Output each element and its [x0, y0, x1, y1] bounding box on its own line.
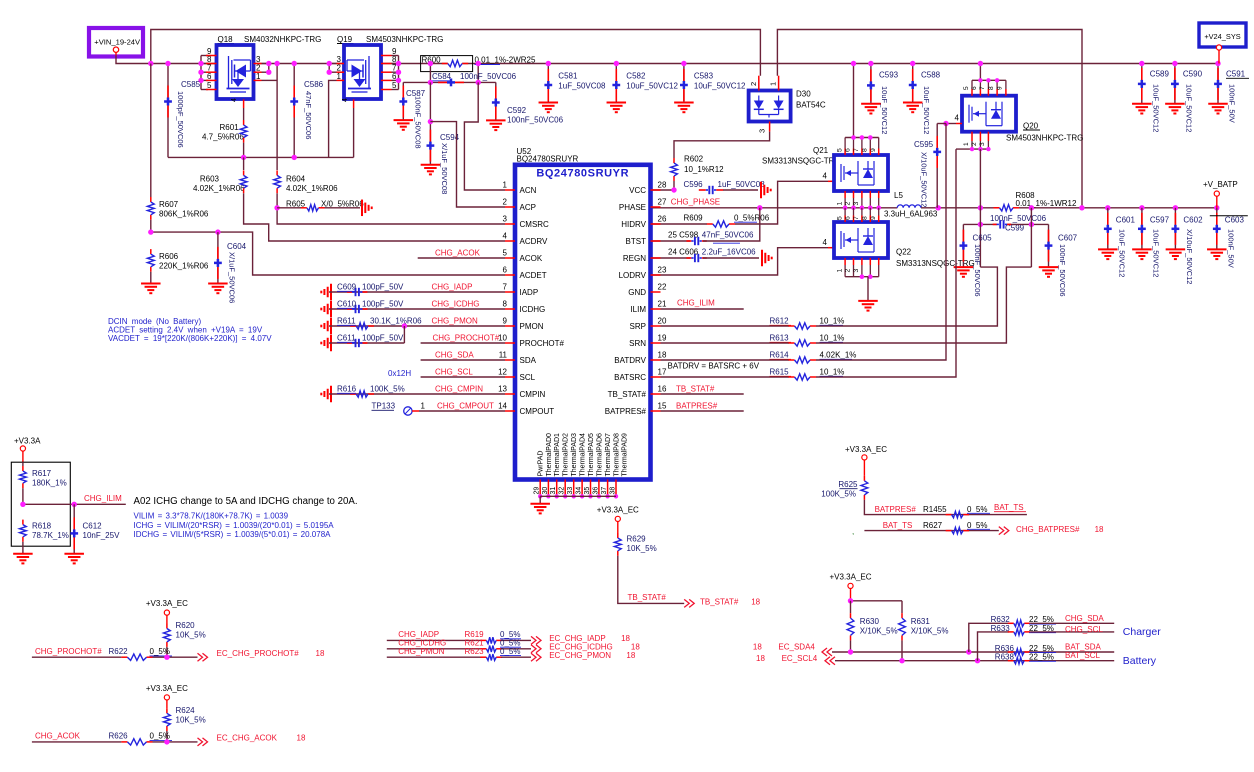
- svg-text:ThermalPAD3: ThermalPAD3: [571, 433, 578, 477]
- Q20 gate pin 4: [946, 123, 956, 125]
- wire Q19 pins 3-2 tie: [328, 64, 330, 73]
- svg-text:C597: C597: [1150, 216, 1170, 225]
- svg-text:ACP: ACP: [520, 203, 536, 212]
- svg-text:36: 36: [592, 487, 599, 495]
- svg-text:R606: R606: [159, 252, 179, 261]
- svg-text:ICHG = VILIM/(20*RSR) = 1.: ICHG = VILIM/(20*RSR) = 1.0039/(20*0.01)…: [134, 521, 335, 530]
- svg-text:CHG_ILIM: CHG_ILIM: [84, 494, 122, 503]
- svg-text:D30: D30: [796, 90, 811, 99]
- U52 pad pin 31: [556, 480, 558, 497]
- svg-text:CHG_PHASE: CHG_PHASE: [671, 198, 720, 207]
- svg-text:+V3.3A_EC: +V3.3A_EC: [829, 572, 871, 581]
- svg-text:100nF_50VC08: 100nF_50VC08: [414, 96, 423, 149]
- connector EC_SDA4: [822, 648, 832, 656]
- svg-text:CHG_ACOK: CHG_ACOK: [35, 732, 81, 741]
- svg-text:Q21: Q21: [813, 146, 829, 155]
- svg-text:Q18: Q18: [218, 35, 234, 44]
- Q19 left pins: [337, 63, 345, 65]
- svg-text:0_5%: 0_5%: [967, 521, 987, 530]
- svg-text:BQ24780SRUYR: BQ24780SRUYR: [517, 154, 579, 163]
- wire pad bus: [540, 495, 616, 497]
- power flag +VIN_19-24V: [89, 28, 143, 57]
- svg-text:PwrPAD: PwrPAD: [538, 451, 545, 477]
- svg-text:SDA: SDA: [520, 356, 537, 365]
- svg-text:31: 31: [550, 487, 557, 495]
- svg-text:CHG_SCL: CHG_SCL: [1065, 625, 1103, 634]
- U52 pin 13 CMPIN: [505, 393, 515, 395]
- svg-text:18: 18: [316, 649, 325, 658]
- U52 pad pin 33: [573, 480, 575, 497]
- svg-text:TB_STAT#: TB_STAT#: [608, 390, 647, 399]
- U52 pin 26 HIDRV: [651, 223, 661, 225]
- svg-text:CHG_CMPIN: CHG_CMPIN: [435, 385, 483, 394]
- svg-text:ACDRV: ACDRV: [520, 237, 549, 246]
- wire Q20 source down: [979, 149, 981, 208]
- svg-text:10uF_50VC12: 10uF_50VC12: [1117, 229, 1126, 277]
- ground R618: [13, 553, 33, 555]
- svg-text:100nF_50VC06: 100nF_50VC06: [973, 244, 982, 297]
- svg-text:10K_5%: 10K_5%: [176, 715, 206, 724]
- wire Q22 source to ground: [845, 276, 879, 278]
- svg-text:CHG_SDA: CHG_SDA: [1065, 614, 1104, 623]
- svg-text:220K_1%R06: 220K_1%R06: [159, 262, 209, 271]
- svg-text:C609: C609: [337, 283, 357, 292]
- svg-text:2.2uF_16VC06: 2.2uF_16VC06: [702, 248, 756, 257]
- svg-text:PHASE: PHASE: [619, 203, 646, 212]
- svg-text:22: 22: [658, 283, 667, 292]
- wire LODRV to Q22 gate: [652, 248, 828, 275]
- ground Q22: [858, 300, 878, 302]
- wire BATPRES#: [661, 410, 744, 412]
- capacitor C592 100nF_50VC06: [495, 82, 497, 120]
- junction +VIN entry: [148, 61, 153, 66]
- wire SDA bus: [832, 651, 1114, 653]
- svg-text:C610: C610: [337, 300, 357, 309]
- U52 pin 19 SRN: [651, 342, 661, 344]
- svg-text:7: 7: [979, 86, 986, 90]
- U52 pin 15 BATPRES#: [651, 410, 661, 412]
- svg-text:,: ,: [852, 527, 854, 536]
- svg-text:1: 1: [256, 72, 261, 81]
- svg-text:ThermalPAD5: ThermalPAD5: [588, 433, 595, 477]
- svg-text:10K_5%: 10K_5%: [176, 631, 206, 640]
- svg-text:4: 4: [955, 114, 960, 123]
- svg-text:EC_SCL4: EC_SCL4: [782, 654, 818, 663]
- svg-text:GND: GND: [628, 288, 646, 297]
- svg-text:4.02K_1%: 4.02K_1%: [820, 351, 857, 360]
- U52 pin 9 PMON: [505, 325, 515, 327]
- U52 pin 24 REGN: [651, 257, 661, 259]
- svg-text:X/1uF_50VC08: X/1uF_50VC08: [440, 143, 449, 194]
- svg-text:C612: C612: [83, 522, 103, 531]
- svg-text:10uF_50VC12: 10uF_50VC12: [1184, 84, 1193, 132]
- svg-text:1: 1: [503, 181, 508, 190]
- svg-text:X/10K_5%: X/10K_5%: [911, 627, 949, 636]
- connector EC_CHG_PMON: [531, 653, 541, 661]
- svg-text:1: 1: [836, 202, 843, 206]
- svg-text:1uF_50VC08: 1uF_50VC08: [718, 180, 766, 189]
- svg-text:+V3.3A_EC: +V3.3A_EC: [146, 684, 188, 693]
- svg-text:R622: R622: [109, 647, 129, 656]
- svg-text:HIDRV: HIDRV: [621, 220, 646, 229]
- svg-text:3: 3: [979, 142, 986, 146]
- svg-text:R1455: R1455: [923, 505, 947, 514]
- wire SRN: [816, 267, 1031, 343]
- svg-text:ThermalPAD2: ThermalPAD2: [563, 433, 570, 477]
- svg-text:C603: C603: [1225, 216, 1245, 225]
- U52 pin 25 BTST: [651, 240, 661, 242]
- svg-text:0_5%: 0_5%: [500, 647, 520, 656]
- wire Q18 pin1 to R604: [262, 79, 278, 81]
- svg-text:100nF_50VC06: 100nF_50VC06: [460, 72, 517, 81]
- svg-text:C585: C585: [181, 80, 201, 89]
- svg-text:CHG_PMON: CHG_PMON: [398, 647, 444, 656]
- svg-text:TB_STAT#: TB_STAT#: [700, 598, 739, 607]
- svg-text:30: 30: [542, 487, 549, 495]
- svg-text:R626: R626: [109, 732, 129, 741]
- svg-text:R612: R612: [770, 317, 790, 326]
- svg-text:100pF_50V: 100pF_50V: [362, 283, 404, 292]
- ground R605: [361, 200, 363, 217]
- svg-text:1: 1: [337, 72, 342, 81]
- svg-text:X/10uF_50VC12: X/10uF_50VC12: [1185, 229, 1194, 284]
- svg-text:10K_5%: 10K_5%: [627, 544, 657, 553]
- svg-text:BATPRES#: BATPRES#: [676, 402, 718, 411]
- svg-text:CHG_SDA: CHG_SDA: [435, 351, 474, 360]
- U52 pad pin 32: [564, 480, 566, 497]
- wire D30 pin1 riser to system: [777, 30, 1082, 208]
- svg-text:17: 17: [658, 368, 667, 377]
- wire HIDRV to Q21 gate: [735, 181, 828, 224]
- svg-text:2: 2: [749, 82, 758, 86]
- svg-text:+V_BATP: +V_BATP: [1203, 180, 1238, 189]
- resistor R600 0.01_1%-2WR25: [421, 56, 473, 72]
- svg-text:C586: C586: [304, 80, 324, 89]
- svg-text:0_5%R06: 0_5%R06: [734, 213, 770, 222]
- svg-text:3: 3: [853, 202, 860, 206]
- svg-text:L5: L5: [894, 191, 903, 200]
- svg-text:4.02K_1%R06: 4.02K_1%R06: [193, 184, 245, 193]
- svg-text:R616: R616: [337, 385, 357, 394]
- svg-text:9: 9: [997, 86, 1004, 90]
- svg-text:8: 8: [503, 300, 508, 309]
- ground C582: [607, 102, 627, 104]
- U52 pin 20 SRP: [651, 325, 661, 327]
- svg-text:4: 4: [342, 98, 349, 102]
- svg-text:X/10uF_50VC12: X/10uF_50VC12: [920, 152, 929, 207]
- svg-text:9: 9: [503, 317, 508, 326]
- svg-text:R618: R618: [32, 522, 52, 531]
- connector EC_CHG_ICDHG: [531, 645, 541, 653]
- wire R604 to CMSRC: [277, 193, 505, 224]
- svg-text:29: 29: [534, 487, 541, 495]
- svg-text:100K_5%: 100K_5%: [370, 385, 405, 394]
- svg-text:100nF_50V: 100nF_50V: [1226, 229, 1235, 268]
- ground C601: [1098, 248, 1118, 250]
- svg-text:R620: R620: [176, 621, 196, 630]
- wire CHG_ILIM node: [23, 503, 126, 505]
- U52 pad pin 38: [615, 480, 617, 497]
- U52 pin 22 GND: [651, 291, 661, 293]
- svg-text:R630: R630: [860, 617, 880, 626]
- Q22 bottom pins: [844, 258, 846, 265]
- svg-text:ICDHG: ICDHG: [520, 305, 546, 314]
- Q20 bottom pins: [956, 148, 988, 150]
- svg-text:+V3.3A_EC: +V3.3A_EC: [597, 505, 639, 514]
- svg-text:28: 28: [658, 181, 667, 190]
- svg-text:19: 19: [658, 334, 667, 343]
- svg-text:10uF_50VC12: 10uF_50VC12: [1151, 229, 1160, 277]
- svg-text:18: 18: [756, 654, 765, 663]
- svg-text:4: 4: [823, 238, 828, 247]
- svg-text:18: 18: [621, 634, 630, 643]
- svg-text:X/1uF_50VC06: X/1uF_50VC06: [228, 252, 237, 303]
- svg-text:7: 7: [853, 148, 860, 152]
- svg-text:30.1K_1%R06: 30.1K_1%R06: [370, 317, 422, 326]
- U52 pad pin 34: [581, 480, 583, 497]
- svg-text:+V3.3A_EC: +V3.3A_EC: [146, 599, 188, 608]
- Q20 top pin bus: [979, 64, 981, 81]
- svg-text:SRN: SRN: [629, 339, 646, 348]
- svg-text:7: 7: [853, 216, 860, 220]
- svg-text:R602: R602: [684, 155, 704, 164]
- ground C590: [1165, 103, 1185, 105]
- svg-text:10_1%: 10_1%: [820, 368, 845, 377]
- svg-text:A02 ICHG change to 5A and IDCH: A02 ICHG change to 5A and IDCHG change t…: [134, 496, 358, 507]
- capacitor C609 100pF_50V: [330, 284, 332, 301]
- connector EC_SCL4: [825, 657, 835, 665]
- svg-text:CMPIN: CMPIN: [520, 390, 546, 399]
- svg-text:R624: R624: [176, 706, 196, 715]
- svg-text:REGN: REGN: [623, 254, 646, 263]
- svg-text:PMON: PMON: [520, 322, 544, 331]
- capacitor C591 100nF_50V: [1217, 64, 1219, 104]
- ground C607: [1039, 266, 1059, 268]
- svg-text:100nF_50VC06: 100nF_50VC06: [990, 214, 1047, 223]
- resistor R611 30.1K_1%R06: [330, 318, 332, 335]
- svg-text:6: 6: [845, 148, 852, 152]
- capacitor C582 10uF_50VC12: [615, 64, 617, 103]
- svg-text:8: 8: [207, 55, 212, 64]
- svg-text:ThermalPAD1: ThermalPAD1: [554, 433, 561, 477]
- svg-text:EC_SDA4: EC_SDA4: [778, 643, 815, 652]
- svg-text:10uF_50VC12: 10uF_50VC12: [880, 86, 889, 134]
- svg-text:BATPRES#: BATPRES#: [605, 407, 647, 416]
- svg-text:4.02K_1%R06: 4.02K_1%R06: [286, 184, 338, 193]
- wire PROCHOT#: [421, 342, 505, 344]
- ground C597: [1132, 248, 1152, 250]
- svg-text:20: 20: [658, 317, 667, 326]
- Q18 left pin bus: [200, 56, 202, 90]
- svg-text:12: 12: [498, 368, 507, 377]
- svg-text:1: 1: [421, 402, 426, 411]
- U52 pin 11 SDA: [505, 359, 515, 361]
- svg-text:Battery: Battery: [1123, 655, 1157, 667]
- svg-text:R631: R631: [911, 617, 931, 626]
- svg-text:78.7K_1%: 78.7K_1%: [32, 531, 69, 540]
- D30 pin 1 stub: [778, 76, 780, 91]
- wire ACOK: [418, 257, 505, 259]
- svg-text:3: 3: [853, 269, 860, 273]
- U52 pad pin 37: [607, 480, 609, 497]
- svg-text:ACN: ACN: [520, 186, 537, 195]
- svg-text:10_1%: 10_1%: [820, 317, 845, 326]
- svg-text:5: 5: [963, 86, 970, 90]
- wire BATDRV to Q20 gate: [816, 124, 946, 361]
- svg-text:CHG_ILIM: CHG_ILIM: [677, 299, 715, 308]
- svg-text:ThermalPAD8: ThermalPAD8: [614, 433, 621, 477]
- svg-text:10uF_50VC12: 10uF_50VC12: [626, 82, 678, 91]
- svg-text:IADP: IADP: [520, 288, 539, 297]
- svg-text:ThermalPAD6: ThermalPAD6: [596, 433, 603, 477]
- svg-text:C596: C596: [684, 180, 704, 189]
- connector EC_CHG_PROCHOT#: [198, 653, 208, 661]
- svg-text:R603: R603: [200, 175, 220, 184]
- svg-text:ILIM: ILIM: [630, 305, 646, 314]
- svg-text:ThermalPAD0: ThermalPAD0: [546, 433, 553, 477]
- svg-text:BATSRC: BATSRC: [614, 373, 646, 382]
- svg-text:100nF_50V: 100nF_50V: [1228, 84, 1237, 123]
- svg-text:R604: R604: [286, 175, 306, 184]
- svg-text:C601: C601: [1116, 216, 1136, 225]
- U52 pin 4 ACDRV: [505, 240, 515, 242]
- ground C606: [761, 250, 763, 267]
- svg-text:+V3.3A_EC: +V3.3A_EC: [845, 445, 887, 454]
- svg-text:27: 27: [658, 198, 667, 207]
- svg-text:23: 23: [658, 266, 667, 275]
- svg-text:9: 9: [870, 148, 877, 152]
- svg-text:R609: R609: [684, 213, 704, 222]
- svg-text:TP133: TP133: [372, 402, 396, 411]
- svg-text:X/10K_5%: X/10K_5%: [860, 627, 898, 636]
- svg-text:47nF_50VC06: 47nF_50VC06: [304, 91, 313, 139]
- svg-text:IDCHG = VILIM/(5*RSR) = 1.: IDCHG = VILIM/(5*RSR) = 1.0039/(5*0.01) …: [134, 530, 332, 539]
- svg-text:CHG_BATPRES#: CHG_BATPRES#: [1016, 525, 1080, 534]
- svg-text:1: 1: [769, 82, 778, 86]
- svg-text:18: 18: [658, 351, 667, 360]
- svg-text:6: 6: [503, 266, 508, 275]
- svg-text:4: 4: [823, 172, 828, 181]
- svg-text:10uF_50VC12: 10uF_50VC12: [694, 82, 746, 91]
- svg-text:ThermalPAD7: ThermalPAD7: [605, 433, 612, 477]
- svg-text:CMPOUT: CMPOUT: [520, 407, 555, 416]
- svg-text:BQ24780SRUYR: BQ24780SRUYR: [536, 167, 629, 179]
- svg-text:10uF_50VC12: 10uF_50VC12: [922, 86, 931, 134]
- wire ACP: [430, 122, 505, 207]
- capacitor C589 10uF_50VC12: [1141, 64, 1143, 104]
- svg-text:0_5%: 0_5%: [967, 505, 987, 514]
- capacitor C602 X/10uF_50VC12: [1174, 208, 1176, 250]
- svg-text:SM4503NHKPC-TRG: SM4503NHKPC-TRG: [1006, 134, 1083, 143]
- svg-text:EC_CHG_ACOK: EC_CHG_ACOK: [217, 734, 278, 743]
- svg-text:1uF_50VC08: 1uF_50VC08: [558, 82, 606, 91]
- ground C603: [1207, 248, 1227, 250]
- svg-text:8: 8: [862, 148, 869, 152]
- U52 pad pin 29: [539, 480, 541, 497]
- ground R606: [141, 283, 161, 285]
- svg-text:21: 21: [658, 300, 667, 309]
- svg-text:2: 2: [845, 269, 852, 273]
- U52 pin 16 TB_STAT#: [651, 393, 661, 395]
- wire L5 to R608: [921, 207, 999, 209]
- wire C611 to PMON: [403, 326, 405, 343]
- wire BATSRC to Q20 source: [816, 149, 956, 377]
- svg-text:35: 35: [584, 487, 591, 495]
- svg-text:TB_STAT#: TB_STAT#: [676, 385, 715, 394]
- connector EC_CHG_IADP: [531, 636, 541, 644]
- svg-text:100nF_50VC06: 100nF_50VC06: [1058, 244, 1067, 297]
- svg-text:11: 11: [499, 351, 508, 360]
- svg-text:SRP: SRP: [630, 322, 646, 331]
- svg-text:6: 6: [207, 72, 212, 81]
- svg-text:C595: C595: [914, 140, 934, 149]
- svg-text:18: 18: [753, 643, 762, 652]
- svg-text:5: 5: [392, 81, 397, 90]
- Q21 top pin bus: [853, 64, 855, 138]
- svg-text:VCC: VCC: [629, 186, 646, 195]
- svg-text:SM3313NSQGC-TRG: SM3313NSQGC-TRG: [762, 157, 841, 166]
- D30 pin 2 stub: [758, 76, 760, 91]
- svg-text:4: 4: [231, 98, 238, 102]
- U52 pin 14 CMPOUT: [505, 410, 515, 412]
- svg-text:EC_CHG_PMON: EC_CHG_PMON: [549, 651, 611, 660]
- wire PHASE to L5: [652, 207, 898, 209]
- svg-text:1: 1: [836, 269, 843, 273]
- svg-text:C592: C592: [507, 106, 527, 115]
- U52 pin 23 LODRV: [651, 274, 661, 276]
- svg-text:0.01_1%-1WR12: 0.01_1%-1WR12: [1016, 199, 1077, 208]
- svg-text:3: 3: [256, 55, 261, 64]
- wire Q18 pins 3-2 tie: [268, 64, 270, 73]
- svg-text:18: 18: [297, 734, 306, 743]
- svg-text:+VIN_19-24V: +VIN_19-24V: [94, 37, 141, 46]
- svg-text:Q20: Q20: [1023, 122, 1039, 131]
- U52 pin 27 PHASE: [651, 206, 661, 208]
- svg-text:5: 5: [836, 216, 843, 220]
- svg-text:R627: R627: [923, 521, 943, 530]
- U52 pin 28 VCC: [651, 189, 661, 191]
- D30 pin 3 stub: [769, 122, 771, 132]
- Q18 junctions left: [198, 61, 203, 66]
- svg-text:10nF_25V: 10nF_25V: [83, 531, 121, 540]
- svg-text:VACDET = 19*[220K/(806K+220K)]: VACDET = 19*[220K/(806K+220K)] = 4.07V: [108, 334, 272, 343]
- svg-text:BATPRES#: BATPRES#: [875, 505, 917, 514]
- svg-text:5: 5: [503, 249, 508, 258]
- svg-text:EC_CHG_PROCHOT#: EC_CHG_PROCHOT#: [217, 649, 300, 658]
- svg-text:C611: C611: [337, 334, 356, 343]
- svg-text:R617: R617: [32, 469, 52, 478]
- U52 pin 7 IADP: [505, 291, 515, 293]
- svg-text:CHG_SCL: CHG_SCL: [435, 368, 473, 377]
- svg-text:C593: C593: [879, 71, 899, 80]
- svg-text:R625: R625: [838, 480, 858, 489]
- wire R608 to +V_BATP: [1019, 207, 1217, 209]
- capacitor C611 100pF_50V: [330, 335, 332, 352]
- svg-text:806K_1%R06: 806K_1%R06: [159, 210, 209, 219]
- svg-text:BAT_TS: BAT_TS: [883, 521, 913, 530]
- U52 pad pin 35: [590, 480, 592, 497]
- capacitor C581 1uF_50VC08: [547, 64, 549, 103]
- power flag +V24_SYS: [1199, 23, 1246, 47]
- svg-text:R615: R615: [770, 368, 790, 377]
- Q18 gate pin 4: [243, 99, 245, 108]
- U52 pad pin 30: [547, 480, 549, 497]
- svg-text:100pF_50V: 100pF_50V: [362, 334, 404, 343]
- box R617 R618: [11, 462, 70, 546]
- wire SCL bus: [835, 660, 1114, 662]
- ground C604: [208, 283, 228, 285]
- U52 pin 12 SCL: [505, 376, 515, 378]
